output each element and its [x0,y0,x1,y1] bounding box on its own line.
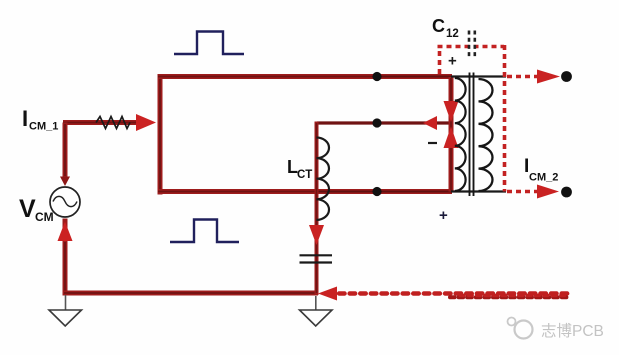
junction dot middle [372,118,381,127]
svg-text:+: + [439,207,448,224]
wire bottom-left horizontal [63,291,319,296]
arrow down on primary [444,101,459,122]
wire top dark overlay near transformer [377,76,452,78]
transformer top lead [451,75,506,77]
voltage source Vcm circle [50,187,80,217]
primary winding [455,78,466,191]
transformer bottom lead [451,190,506,192]
core line left [469,73,471,197]
arrow up on primary [444,127,459,149]
arrow down on L_CT branch [309,225,324,245]
wire left vertical of loop [158,75,163,195]
arrow up into source bottom [58,222,73,242]
svg-text:C: C [432,16,445,36]
svg-text:V: V [19,195,36,223]
wire middle (center-tap) horizontal [317,121,450,124]
L_CT vertical branch [315,122,319,296]
ground 2 [300,310,333,326]
ground 1 [49,310,82,326]
wire Vcm bottom vertical [63,219,68,296]
C12 dashed vertical right [503,45,507,192]
core line right [473,73,475,197]
ground stem 2 [315,296,317,310]
wire top horizontal to transformer [158,74,453,79]
resistor zigzag on input wire [96,117,130,129]
dashed bottom-right out wire [507,190,538,194]
sine wave inside source [53,196,77,206]
svg-text:CM_1: CM_1 [29,121,58,133]
svg-text:CM: CM [35,210,54,224]
ground stem 1 [65,295,67,310]
svg-text:I: I [22,106,28,131]
arrow top-right [537,70,560,84]
node top-right [561,71,572,82]
capacitor plate top [300,254,333,256]
inductor L_CT [317,138,330,220]
transformer primary red vertical [449,77,454,192]
svg-text:CT: CT [297,169,312,181]
arrow left on middle wire [423,116,437,130]
pulse waveform bottom [170,220,239,243]
junction dot bottom [372,187,381,196]
secondary winding [479,79,493,191]
minus sign [428,142,437,144]
C12 dashed vertical left [438,47,442,75]
node bottom-right [561,187,572,198]
junction dot top [372,72,381,81]
capacitor plate bottom [300,261,333,263]
capacitor C12 plate right [473,31,476,58]
dashed return wire third fragment [460,294,568,297]
svg-text:志博PCB: 志博PCB [541,322,604,340]
dashed return wire [339,291,572,295]
pulse waveform top [174,32,244,55]
svg-text:+: + [448,53,457,70]
arrow on input wire [136,114,156,131]
svg-text:CM_2: CM_2 [529,172,558,184]
arrow bottom-right [537,185,559,199]
C12 dashed horizontal [438,45,505,49]
wire input horizontal from Vcm node to left vertical [63,120,150,125]
arrow left on return dashed wire [318,287,337,301]
wire bottom horizontal to transformer [158,189,453,194]
dashed return wire second row [450,295,570,299]
dashed top-right out wire [507,75,538,79]
arrow into source top [60,177,70,187]
capacitor C12 plate left [468,31,471,58]
watermark logo [508,318,533,339]
svg-text:12: 12 [446,28,459,40]
wire bottom dark overlay near transformer [318,191,452,193]
wire Vcm top vertical [63,123,68,179]
